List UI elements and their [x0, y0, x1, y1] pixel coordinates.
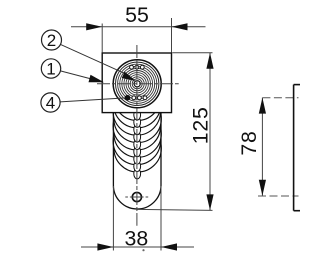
dimension 38 extension line right	[160, 186, 162, 251]
front plate	[102, 53, 171, 113]
dimension 125 arrow bottom	[206, 194, 213, 210]
dimension 78 dashed extension top	[262, 97, 298, 99]
horizontal centerline	[97, 83, 179, 85]
dimension 78 arrow top	[259, 98, 266, 114]
svg-text:1: 1	[46, 60, 55, 79]
callout 1 balloon	[41, 59, 60, 78]
top hole row	[130, 65, 145, 69]
dimension 78 dashed extension bottom	[258, 195, 299, 197]
sounder disc outer ring	[113, 60, 161, 108]
callout 2 leader	[61, 44, 126, 73]
dimension 125 extension line bottom	[137, 209, 212, 210]
concentric grille rings	[118, 64, 157, 103]
dimension 55 arrow left	[86, 23, 102, 30]
mounting hole with crosshair	[132, 192, 141, 201]
vertical centerline	[136, 45, 138, 226]
callout 4 leader	[60, 98, 127, 102]
svg-text:125: 125	[189, 106, 213, 144]
speck	[142, 249, 144, 251]
svg-text:2: 2	[47, 31, 56, 50]
dimension 55 arrow right	[172, 23, 188, 30]
dimension 78 arrow bottom	[259, 180, 266, 196]
callout 4 balloon	[41, 93, 60, 112]
dimension 38 extension line left	[112, 186, 114, 251]
svg-text:38: 38	[125, 226, 149, 250]
bottom hole row	[132, 96, 147, 100]
dimension 38 line	[81, 246, 194, 248]
dimension 125 arrow top	[206, 53, 213, 69]
pill body outline (slotted case)	[113, 113, 161, 209]
chain link ellipses (center column)	[134, 110, 141, 179]
side view bottom edge	[294, 210, 300, 212]
svg-text:4: 4	[46, 94, 55, 113]
side view left edge	[293, 85, 295, 211]
ring chain (stack of linked rings, drawn bottom ring first)	[113, 73, 161, 172]
side view top edge	[294, 84, 300, 86]
svg-text:78: 78	[237, 130, 261, 155]
callout 1 arrowhead	[89, 75, 105, 83]
dimension 78 line	[261, 98, 263, 196]
dimension 55 line	[71, 26, 206, 28]
callout 4 dot	[125, 95, 131, 101]
dimension 55 extension line right	[171, 18, 173, 53]
dimension 125 extension line top	[172, 52, 212, 54]
svg-text:55: 55	[125, 3, 149, 27]
dimension 55 extension line left	[101, 24, 103, 53]
dimension 125 line	[209, 53, 211, 211]
callout 1 leader	[60, 71, 91, 79]
dimension 38 arrow right	[161, 243, 177, 250]
callout 2 arrowhead	[122, 72, 136, 81]
center hole	[134, 81, 140, 87]
callout 2 balloon	[42, 30, 62, 50]
sounder disc second ring	[116, 62, 159, 105]
dimension 38 arrow left	[97, 243, 113, 250]
